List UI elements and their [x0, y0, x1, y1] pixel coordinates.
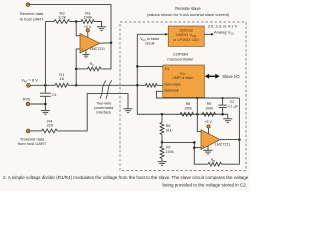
svg-text:100k: 100k: [184, 106, 192, 110]
svg-text:from host UART: from host UART: [18, 141, 47, 146]
label receive data to host UART: [20, 11, 44, 21]
wire arrow analog VCC: [204, 33, 214, 36]
resistor R2: [54, 10, 70, 23]
wire VCC riser: [137, 34, 165, 85]
capacitor C2: [219, 98, 239, 114]
wire from receive node to comparator output: [30, 5, 111, 43]
node R6/R7 junction: [161, 141, 164, 144]
wire +5V to op-amp: [87, 32, 89, 38]
svg-text:+5 V: +5 V: [84, 25, 92, 29]
node C2 junction: [221, 113, 224, 116]
capacitor C1: [40, 93, 57, 97]
wire RTN: [30, 104, 46, 110]
node feedback corner junction: [193, 141, 196, 144]
svg-text:LMC7211: LMC7211: [90, 47, 105, 51]
wire R3 to ground: [94, 22, 101, 27]
svg-text:91k: 91k: [166, 128, 172, 132]
node inverting riser top: [196, 97, 198, 99]
op-amp U4 LMC7211: [201, 130, 230, 150]
svg-text:100k: 100k: [205, 106, 213, 110]
svg-text:(values shown for 9-mA nominal: (values shown for 9-mA nominal slave cur…: [147, 12, 230, 17]
svg-text:+: +: [82, 48, 84, 52]
wire inverting input riser: [197, 98, 201, 132]
slave I/O double arrow: [205, 74, 220, 79]
svg-text:or LP29XX LDO: or LP29XX LDO: [173, 38, 199, 42]
svg-text:0.1 µF: 0.1 µF: [228, 105, 239, 109]
node C2 top junction: [222, 97, 224, 99]
ground (R3): [97, 27, 106, 31]
resistor R7: [160, 142, 174, 161]
node U4 output junction: [238, 138, 241, 141]
svg-text:Receive data: Receive data: [20, 11, 44, 16]
label COP8 microcontroller: [167, 52, 194, 62]
cable slash marks: [100, 80, 112, 98]
wire divider to inverting input: [76, 22, 80, 36]
svg-text:to host UART: to host UART: [20, 17, 44, 22]
resistor R1: [55, 72, 69, 87]
wire U4 output: [220, 139, 239, 141]
wire arrow into regulator: [165, 33, 168, 36]
wire noninverting input: [76, 49, 80, 85]
label VCC to slave circuit: [140, 37, 159, 45]
wire slave sense rail: [137, 85, 228, 114]
svg-text:220: 220: [46, 122, 53, 127]
wire +5V to op-amp U4: [208, 128, 210, 135]
wire C1 to RTN: [44, 96, 46, 104]
node R8/R9 junction: [196, 113, 199, 116]
resistor R9: [202, 102, 216, 116]
resistor R4: [42, 119, 58, 133]
resistor series data output: [137, 84, 163, 88]
svg-text:C1: C1: [52, 93, 57, 97]
ground (op-amp U4): [204, 146, 213, 154]
svg-text:being provided to the voltage: being provided to the voltage stored in …: [162, 182, 247, 187]
svg-text:2. A simple voltage divider (R: 2. A simple voltage divider (R1/R4) modu…: [3, 175, 249, 180]
svg-text:100k: 100k: [166, 150, 174, 154]
node noninverting junction: [193, 146, 196, 149]
regulator U2 optional LM4041/LDO: [168, 26, 204, 46]
remote slave dashed enclosure: [120, 22, 246, 171]
wire reference divider rail: [45, 21, 54, 23]
wire power line: [30, 84, 55, 86]
node R6 tap: [161, 113, 164, 116]
node feedback junction: [75, 68, 78, 71]
wire line to slave junction: [69, 84, 138, 86]
svg-text:UART or other: UART or other: [172, 76, 193, 80]
wire op-amp output: [100, 42, 111, 44]
label two-wire power/data interface: [94, 101, 114, 114]
wire 6V pin: [137, 65, 163, 67]
wire transmit to return line: [57, 94, 128, 131]
wire noninverting stub: [194, 147, 201, 149]
svg-text:data output: data output: [164, 83, 180, 87]
wire RB to output: [222, 140, 240, 165]
ground (C2/R9): [223, 114, 232, 122]
svg-text:+5 V: +5 V: [204, 120, 212, 124]
node +5V slave: [204, 120, 212, 128]
svg-text:−: −: [82, 35, 84, 39]
svg-text:power/data: power/data: [94, 106, 114, 110]
label transmit data from host UART: [18, 136, 47, 146]
wire transmit: [30, 130, 41, 132]
node output junction: [110, 42, 113, 45]
svg-text:Optional: Optional: [180, 29, 194, 33]
label remote slave header: [147, 6, 230, 17]
ground (R7): [158, 162, 167, 166]
svg-text:Slave I/O: Slave I/O: [222, 74, 240, 79]
wire data input pin: [156, 91, 239, 98]
resistor RB feedback: [208, 158, 222, 166]
svg-text:+: +: [203, 145, 205, 149]
node RTN terminal: [26, 102, 30, 106]
svg-text:circuit: circuit: [145, 42, 154, 46]
svg-text:16: 16: [60, 76, 65, 81]
wire R2 to R3: [70, 21, 81, 23]
svg-text:3.0, 3.3, or 4.1 V: 3.0, 3.3, or 4.1 V: [208, 24, 238, 29]
resistor R8: [180, 102, 194, 116]
node line tap junction: [75, 84, 78, 87]
wire noninverting input slave: [162, 142, 208, 164]
node 6V pin junction: [136, 65, 139, 68]
ground (op-amp U1): [83, 50, 90, 58]
svg-text:3.2k: 3.2k: [58, 14, 66, 19]
svg-text:−: −: [203, 131, 205, 135]
node VPS terminal: [27, 84, 31, 88]
svg-text:RTN: RTN: [23, 98, 31, 102]
wire feedback loop host: [101, 43, 111, 69]
svg-text:100k: 100k: [83, 14, 92, 19]
node transmit terminal: [26, 129, 30, 133]
ground (RTN): [41, 111, 50, 115]
node receive-data terminal: [26, 3, 30, 7]
wire output to data input rail: [238, 98, 240, 140]
node RTN junction: [44, 103, 47, 106]
svg-text:interface: interface: [97, 110, 112, 114]
resistor R6: [160, 114, 172, 142]
wire divider rail vertical: [44, 22, 46, 93]
ground (slave return): [124, 109, 133, 113]
svg-text:LMC7211: LMC7211: [215, 142, 230, 146]
node junction R2/R3: [75, 20, 78, 23]
svg-text:C2: C2: [230, 100, 235, 104]
svg-text:microcontroller: microcontroller: [167, 56, 194, 61]
op-amp U1 LMC7211: [80, 34, 105, 54]
svg-text:Two-wire: Two-wire: [96, 101, 111, 105]
microcontroller U3: [163, 65, 205, 98]
node line junction: [136, 84, 139, 87]
svg-text:Remote slave: Remote slave: [175, 6, 201, 11]
resistor R3: [81, 10, 94, 23]
label analog VCC output: [208, 24, 238, 36]
wire RA to noninverting input: [76, 68, 87, 70]
node VPS junction: [44, 84, 47, 87]
node +5V host: [84, 25, 92, 32]
resistor RA feedback: [87, 62, 101, 71]
svg-text:data input: data input: [164, 89, 178, 93]
